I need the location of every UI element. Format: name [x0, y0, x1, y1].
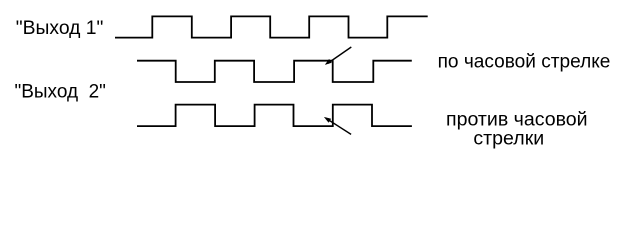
arrow pointing at falling edge of output 2 (clockwise): [325, 47, 351, 65]
svg-text:стрелки: стрелки: [473, 128, 544, 149]
waveform output 1: [115, 16, 428, 37]
waveform output 2 clockwise: [137, 61, 412, 82]
svg-text:по часовой стрелке: по часовой стрелке: [438, 51, 611, 72]
arrow pointing at rising edge of output 2 (counterclockwise): [324, 117, 351, 134]
waveform output 2 counterclockwise: [137, 105, 412, 127]
svg-text:"Выход 1": "Выход 1": [16, 18, 104, 39]
svg-text:против часовой: против часовой: [446, 109, 588, 130]
svg-text:"Выход 2": "Выход 2": [15, 82, 106, 103]
